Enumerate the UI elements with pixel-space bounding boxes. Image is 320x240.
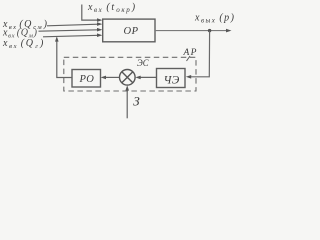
- wire comparator to RO: [101, 76, 120, 80]
- wire feedback down to sensor: [186, 31, 210, 79]
- wire sensor to comparator: [135, 76, 156, 80]
- node label x_vh(Q_m): [2, 28, 38, 40]
- node label x_vh(Q_cm): [2, 19, 48, 31]
- wire output x_vyh: [155, 29, 232, 33]
- wire RO up to input 3: [55, 36, 72, 77]
- block OR (controlled object): [103, 19, 155, 42]
- node label AR: [183, 48, 198, 61]
- wire input 3: [43, 33, 102, 37]
- svg-text:РО: РО: [79, 74, 95, 85]
- node junction dot: [208, 29, 211, 32]
- wire t_okr input: [82, 5, 103, 22]
- block ChE (sensing element): [157, 69, 186, 88]
- comparator ES circle with cross: [120, 70, 136, 86]
- wire input 2: [39, 28, 103, 32]
- wire setpoint Z into comparator: [125, 85, 129, 118]
- node label x_vyh(p): [194, 13, 236, 25]
- node label x_vh(t_okr): [87, 2, 137, 14]
- svg-text:ЭС: ЭС: [137, 59, 149, 69]
- wire input 1: [47, 22, 102, 26]
- svg-text:ОР: ОР: [124, 26, 139, 37]
- block RO (regulating organ): [72, 70, 101, 88]
- dashed box AR (automatic regulator): [64, 57, 196, 91]
- svg-text:ЧЭ: ЧЭ: [164, 75, 180, 87]
- svg-text:З: З: [133, 94, 140, 109]
- node label x_vh(Q_g): [2, 38, 45, 50]
